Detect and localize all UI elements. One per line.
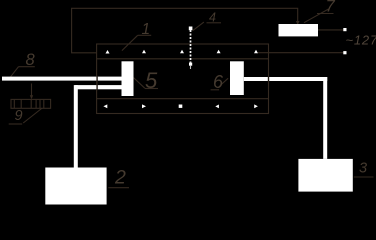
chamber wall over bar right: [268, 76, 270, 82]
needle 4 dashed body: [190, 30, 192, 63]
wire terminal upper: [318, 29, 344, 31]
sample rod 8: [2, 77, 122, 81]
scale tick 1: [13, 99, 15, 108]
arrowhead leader 8: [8, 76, 12, 80]
underline label 2: [108, 187, 129, 189]
underline label 4: [207, 22, 222, 24]
leader label 1: [122, 35, 138, 50]
indicator scale 9 box: [11, 99, 51, 108]
heater stud top 3: [180, 50, 184, 54]
heater stud bottom 5: [254, 104, 258, 108]
wire top loop to transformer: [72, 8, 298, 53]
underline label 3: [354, 176, 374, 178]
leader label 6: [220, 78, 228, 85]
wire drop to box 2: [74, 85, 78, 167]
heater stud bottom 4: [215, 105, 219, 109]
underline label 1: [138, 34, 152, 36]
leader label 4: [193, 22, 204, 31]
box 7 transformer: [279, 24, 319, 36]
underline label 8: [19, 66, 35, 68]
heater stud bottom 2: [142, 104, 146, 108]
arrowhead into transformer 7: [296, 21, 300, 25]
svg-text:5: 5: [145, 68, 158, 93]
arrowhead onto scale 9: [30, 95, 33, 99]
leader label 5: [134, 78, 145, 89]
wire drop to box 3: [323, 77, 327, 159]
lower bar from electrode 5: [75, 85, 122, 89]
bar from electrode 6: [244, 77, 327, 81]
svg-text:3: 3: [359, 160, 367, 176]
terminal dot upper: [343, 28, 346, 31]
chamber inner wall top: [97, 58, 269, 60]
svg-text:4: 4: [209, 11, 216, 25]
underline label 7: [317, 13, 334, 15]
underline label 6: [211, 89, 220, 91]
electrode 6: [230, 61, 244, 95]
electrode 5: [122, 61, 134, 96]
leader label 8: [9, 67, 19, 80]
svg-text:9: 9: [15, 108, 23, 124]
heater stud bottom 3: [179, 105, 183, 108]
heater stud top 4: [217, 50, 221, 54]
terminal dot lower: [343, 51, 346, 54]
heater stud bottom 1: [103, 104, 107, 108]
chamber body 1 outer rectangle: [97, 44, 269, 114]
leader label 9: [23, 109, 41, 124]
svg-text:~127: ~127: [346, 33, 376, 48]
heater stud top 5: [254, 50, 258, 54]
chamber wall over bars left: [96, 76, 98, 90]
box 2 generator: [45, 168, 106, 205]
svg-text:8: 8: [26, 51, 36, 69]
svg-text:2: 2: [114, 167, 126, 189]
wire terminal lower: [258, 52, 344, 54]
needle 4 bottom square: [189, 63, 192, 66]
heater stud top 2: [142, 50, 146, 54]
underline label 5: [145, 88, 158, 90]
svg-text:1: 1: [142, 21, 151, 38]
heater stud top 1: [106, 50, 110, 54]
pointer arrow line to scale 9: [31, 84, 33, 97]
needle 4 top square: [189, 27, 193, 31]
box 3: [298, 159, 352, 192]
needle 4 tip: [190, 66, 192, 69]
underline label 9: [9, 123, 23, 125]
chamber inner wall bottom: [97, 98, 269, 100]
leader label 7: [304, 9, 328, 23]
svg-text:7: 7: [326, 0, 336, 15]
svg-text:6: 6: [213, 72, 224, 92]
